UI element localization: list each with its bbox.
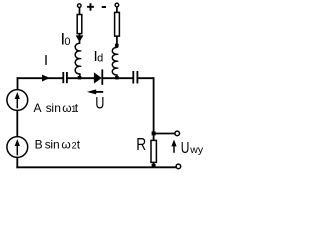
svg-text:U: U [181, 138, 190, 156]
svg-text:R: R [136, 136, 146, 155]
svg-text:Id: Id [94, 48, 104, 65]
svg-text:wy: wy [189, 144, 204, 156]
svg-text:Asinω1t: Asinω1t [34, 101, 79, 115]
svg-text:U: U [95, 95, 104, 113]
svg-text:I0: I0 [61, 31, 71, 49]
svg-text:I: I [44, 53, 48, 69]
svg-text:Bsinω2t: Bsinω2t [35, 137, 81, 151]
